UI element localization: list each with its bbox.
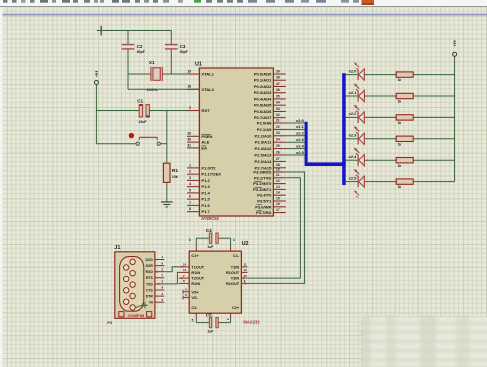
svg-text:P3.4/T0: P3.4/T0 [257,193,272,198]
svg-text:P3.5/T1: P3.5/T1 [257,199,272,204]
svg-text:27: 27 [276,157,280,161]
svg-text:10: 10 [276,167,280,171]
svg-text:T2OUT: T2OUT [191,276,204,281]
svg-text:x2.5: x2.5 [349,175,358,180]
svg-text:RTS: RTS [146,276,154,280]
svg-text:18: 18 [187,85,191,89]
svg-text:C2-: C2- [191,305,198,310]
svg-text:x2.5: x2.5 [296,150,305,155]
svg-text:8: 8 [189,207,191,211]
svg-text:1k: 1k [398,185,402,189]
svg-text:C1: C1 [137,99,143,104]
svg-text:P2.6/A14: P2.6/A14 [255,159,273,164]
svg-text:P3.1/TXD: P3.1/TXD [254,175,272,180]
svg-text:ALE: ALE [201,140,209,145]
svg-text:P1.5: P1.5 [201,197,210,202]
svg-text:T1IN: T1IN [231,264,240,269]
svg-text:11: 11 [244,263,247,267]
svg-text:XTAL2: XTAL2 [201,87,214,92]
svg-text:P2.5/A13: P2.5/A13 [255,153,273,158]
svg-text:13: 13 [276,185,280,189]
svg-text:12MHz: 12MHz [146,88,158,92]
svg-text:9: 9 [189,106,191,110]
svg-text:TXD: TXD [146,282,153,286]
svg-text:15: 15 [276,196,280,200]
svg-text:VS+: VS+ [191,289,199,294]
svg-text:37: 37 [276,82,280,86]
svg-text:P0.6/AD6: P0.6/AD6 [254,109,272,114]
svg-text:U2: U2 [242,241,249,247]
svg-text:P2.4/A12: P2.4/A12 [255,146,273,151]
svg-text:1uF: 1uF [207,245,213,249]
svg-text:P0.7/AD7: P0.7/AD7 [254,115,272,120]
svg-text:26: 26 [276,150,280,154]
svg-text:P0.0/AD0: P0.0/AD0 [254,72,272,77]
svg-text:P0.3/AD3: P0.3/AD3 [254,90,272,95]
svg-text:P0.5/AD5: P0.5/AD5 [254,103,272,108]
svg-text:P1.1/T2EX: P1.1/T2EX [201,172,221,177]
svg-text:DTR: DTR [146,295,154,299]
svg-text:6: 6 [189,195,191,199]
svg-text:1k: 1k [398,164,402,168]
svg-text:C5: C5 [206,312,212,317]
svg-text:21: 21 [276,118,280,122]
svg-text:R1: R1 [172,168,178,174]
svg-text:U1: U1 [195,62,202,68]
svg-text:P2.1/A9: P2.1/A9 [257,127,272,132]
svg-text:R1OUT: R1OUT [226,270,240,275]
svg-text:16: 16 [276,202,280,206]
svg-text:CTS: CTS [146,288,154,292]
svg-text:P0.4/AD4: P0.4/AD4 [254,96,272,101]
svg-text:3: 3 [189,176,191,180]
svg-text:x2.4: x2.4 [296,143,305,148]
svg-text:T1OUT: T1OUT [191,264,204,269]
svg-text:P1.7: P1.7 [201,209,210,214]
svg-text:P1.4: P1.4 [201,190,210,195]
svg-text:10k: 10k [172,175,178,179]
svg-text:R2IN: R2IN [191,281,200,286]
svg-text:R2OUT: R2OUT [226,281,240,286]
svg-text:24: 24 [276,138,280,142]
svg-text:J1: J1 [114,245,120,251]
svg-text:P1.6: P1.6 [201,203,210,208]
svg-text:DSR: DSR [146,264,154,268]
svg-text:P0.2/AD2: P0.2/AD2 [254,84,272,89]
svg-text:x2.3: x2.3 [349,133,358,138]
svg-text:P2.0/A8: P2.0/A8 [257,121,272,126]
svg-text:7: 7 [189,201,191,205]
svg-text:33: 33 [276,107,280,111]
svg-text:30pF: 30pF [137,50,146,54]
svg-text:C2: C2 [137,44,143,49]
svg-text:VS-: VS- [191,295,198,300]
svg-text:x2.1: x2.1 [349,90,358,95]
svg-text:MAX232: MAX232 [243,319,260,324]
svg-text:2: 2 [189,170,191,174]
svg-text:4: 4 [189,182,191,186]
svg-text:3: 3 [189,238,191,242]
svg-text:P3.0/RXD: P3.0/RXD [253,170,271,175]
svg-text:+: + [227,317,229,321]
svg-text:12: 12 [244,268,248,272]
svg-text:T2IN: T2IN [231,276,240,281]
svg-text:32: 32 [276,113,280,117]
svg-text:10: 10 [244,274,248,278]
svg-text:31: 31 [187,143,191,147]
svg-text:x2.2: x2.2 [349,111,358,116]
svg-text:14: 14 [276,191,280,195]
svg-text:34: 34 [276,101,280,105]
svg-text:R1IN: R1IN [191,270,200,275]
svg-text:P1.2: P1.2 [201,178,210,183]
svg-text:12: 12 [276,179,280,183]
svg-text:5: 5 [192,319,194,323]
svg-text:P2.3/A11: P2.3/A11 [255,140,272,145]
svg-text:30: 30 [187,138,191,142]
svg-text:RXD: RXD [146,270,154,274]
svg-text:DCD: DCD [145,258,153,262]
svg-text:C2+: C2+ [232,305,240,310]
svg-text:X1: X1 [149,60,155,65]
svg-text:C1-: C1- [233,253,240,258]
svg-text:25: 25 [276,144,280,148]
svg-text:13: 13 [183,268,187,272]
svg-text:29: 29 [187,132,191,136]
svg-text:RI: RI [149,301,152,305]
svg-text:x2.4: x2.4 [349,154,358,159]
svg-text:P1.3: P1.3 [201,184,210,189]
svg-text:1: 1 [189,163,191,167]
svg-text:1: 1 [233,238,235,242]
svg-text:5: 5 [189,188,191,192]
svg-text:1k: 1k [398,142,402,146]
svg-text:RST: RST [201,108,210,113]
svg-text:COMPIM: COMPIM [128,313,145,318]
svg-text:1k: 1k [398,100,402,104]
svg-text:19: 19 [187,69,191,73]
svg-text:14: 14 [183,263,187,267]
svg-text:10uF: 10uF [138,120,147,124]
svg-text:P9: P9 [107,320,113,325]
svg-text:1k: 1k [398,78,402,82]
svg-text:11: 11 [276,173,280,177]
svg-text:AT89C52: AT89C52 [201,216,220,221]
svg-text:17: 17 [276,208,280,212]
svg-text:C4: C4 [206,228,212,233]
svg-text:36: 36 [276,88,280,92]
svg-text:x2.3: x2.3 [296,137,305,142]
svg-text:C1+: C1+ [191,253,199,258]
svg-text:39: 39 [276,69,280,73]
svg-text:P1.0/T2: P1.0/T2 [201,165,216,170]
svg-text:22: 22 [276,125,280,129]
svg-text:23: 23 [276,131,280,135]
svg-text:1k: 1k [398,121,402,125]
svg-text:C3: C3 [180,44,186,49]
svg-text:x2.1: x2.1 [296,124,305,129]
svg-text:30pF: 30pF [180,50,189,54]
svg-text:x2.0: x2.0 [296,118,305,123]
svg-text:35: 35 [276,94,280,98]
svg-text:x2.2: x2.2 [296,131,305,136]
svg-text:x2.0: x2.0 [349,68,358,73]
svg-text:38: 38 [276,76,280,80]
svg-text:1uF: 1uF [207,330,213,334]
svg-text:P0.1/AD1: P0.1/AD1 [254,78,272,83]
svg-text:XTAL1: XTAL1 [201,72,214,77]
svg-text:P2.2/A10: P2.2/A10 [255,133,273,138]
